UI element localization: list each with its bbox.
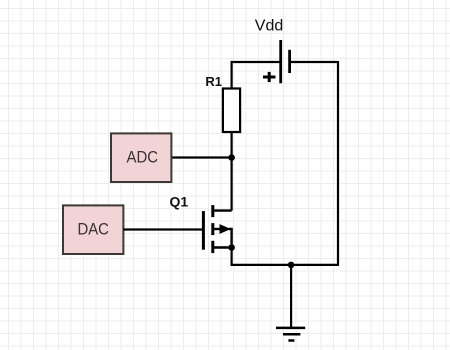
battery plus label bbox=[263, 72, 276, 82]
transistor Q1 drain tap bbox=[213, 209, 232, 211]
wire: right rail down to bottom net bbox=[337, 61, 339, 266]
svg-text:Q1: Q1 bbox=[170, 194, 189, 210]
wire: resistor top to battery positive plate bbox=[232, 62, 281, 89]
wire: source down and along bottom net bbox=[232, 248, 338, 265]
DAC block bbox=[63, 205, 123, 254]
transistor Q1 gate bar bbox=[202, 211, 205, 250]
resistor R1 bbox=[223, 89, 240, 133]
svg-text:R1: R1 bbox=[205, 74, 222, 89]
transistor Q1 body tap with arrow bbox=[213, 224, 232, 247]
battery V1 (Vdd supply) bbox=[281, 40, 290, 83]
svg-text:DAC: DAC bbox=[77, 220, 109, 239]
junction node: ADC / R1 / drain bbox=[228, 154, 235, 161]
wire: battery negative plate to right rail bbox=[290, 61, 338, 63]
ground bbox=[276, 328, 305, 341]
wire: resistor bottom to mosfet drain corner bbox=[231, 132, 233, 211]
wire: ADC output to drain node bbox=[171, 156, 232, 158]
ADC block bbox=[111, 133, 171, 182]
junction node: source to bottom net bbox=[228, 244, 235, 251]
svg-text:ADC: ADC bbox=[127, 148, 159, 167]
svg-text:Vdd: Vdd bbox=[255, 17, 283, 34]
transistor Q1 channel segments bbox=[211, 205, 214, 253]
junction node: bottom net to ground bbox=[288, 262, 295, 269]
transistor Q1 source tap bbox=[213, 246, 232, 248]
wire: ground stem bbox=[290, 265, 292, 328]
wire: DAC output to mosfet gate bbox=[123, 228, 203, 230]
